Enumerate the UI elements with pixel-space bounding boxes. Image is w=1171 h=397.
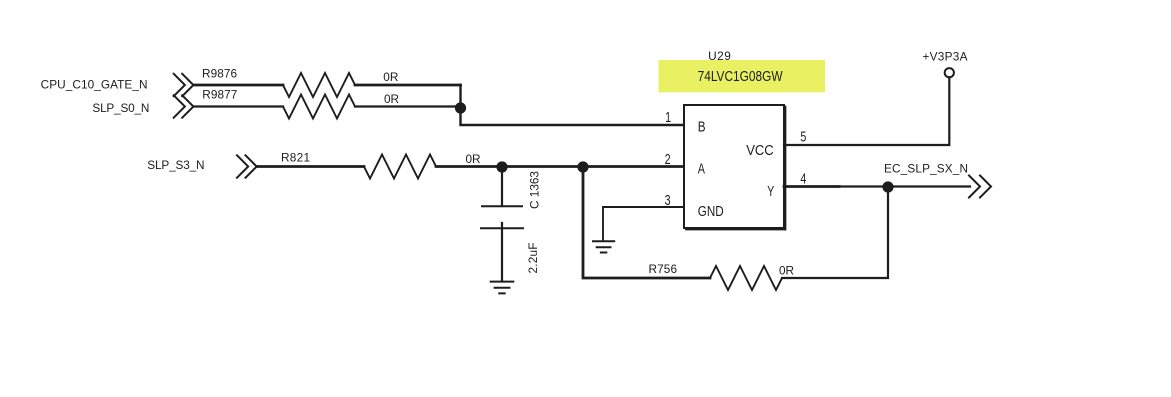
svg-text:VCC: VCC [746,143,774,159]
svg-text:2: 2 [665,152,671,168]
wire vertical down to node B [461,85,685,125]
svg-text:C 1363: C 1363 [528,171,542,209]
svg-text:A: A [698,162,705,178]
wire R9877 to junction [355,105,461,107]
value highlight 74LVC1G08GW [659,60,826,92]
input port chevron SLP_S3_N [237,155,257,177]
svg-text:5: 5 [800,130,806,146]
wire R756 to Y node [782,187,888,279]
svg-text:EC_SLP_SX_N: EC_SLP_SX_N [884,162,968,176]
wire SLP_S3_N to R821 [257,165,364,168]
svg-text:R9877: R9877 [202,88,237,102]
svg-text:R756: R756 [649,262,678,276]
wire SLP_S0_N to R9877 [193,105,283,107]
wire Y to output port [839,185,970,187]
wire pin 3 to ground [603,207,684,241]
wire node A down to R756 [583,167,710,279]
svg-text:SLP_S0_N: SLP_S0_N [92,101,149,115]
svg-text:0R: 0R [383,70,398,84]
wire CPU_C10_GATE_N to R9876 [193,84,283,87]
svg-text:0R: 0R [384,92,399,106]
svg-text:0R: 0R [466,152,481,166]
wire +V3P3A to VCC pin 5 [784,78,949,146]
wire R9876 to corner [355,84,461,87]
svg-text:74LVC1G08GW: 74LVC1G08GW [698,69,783,85]
junction dot capacitor tap [496,161,507,172]
svg-text:CPU_C10_GATE_N: CPU_C10_GATE_N [41,78,148,92]
svg-text:SLP_S3_N: SLP_S3_N [147,158,204,172]
ground at pin 3 [593,241,614,252]
junction dot node B [455,102,466,113]
svg-text:GND: GND [698,204,724,220]
IC body shadow [686,107,786,230]
IC U29 body [684,105,784,228]
junction dot R756 tap [577,161,588,172]
svg-text:2.2uF: 2.2uF [526,243,540,274]
svg-text:B: B [698,120,706,136]
input port chevron CPU_C10_GATE_N [174,74,194,96]
wire R821 to pin A [436,165,684,168]
svg-text:R9876: R9876 [202,66,237,80]
input port chevron SLP_S0_N [174,95,194,117]
svg-text:R821: R821 [281,150,310,164]
svg-text:1: 1 [665,110,671,126]
pin 4 stub [784,185,839,188]
ground below C1363 [491,282,514,294]
svg-text:+V3P3A: +V3P3A [923,50,968,64]
capacitor C1363 [501,167,503,207]
svg-text:Y: Y [767,184,774,200]
junction dot Y node [882,181,893,192]
output port chevron EC_SLP_SX_N [969,176,991,198]
svg-text:0R: 0R [779,264,794,278]
